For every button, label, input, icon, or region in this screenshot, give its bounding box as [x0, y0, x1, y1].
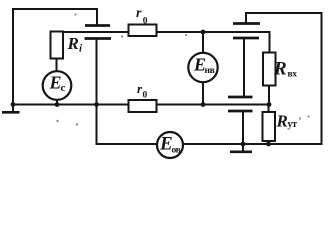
capacitor C2 top plate (signal to shield, receiver side): [233, 22, 260, 25]
resistor r0 (lower line resistance): [129, 100, 157, 112]
svg-text:ут: ут: [288, 119, 298, 130]
wire: top shield horizontal (receiver side): [245, 12, 322, 14]
voltage source Eнв (normal-mode noise emf): [188, 53, 217, 82]
svg-text:нв: нв: [205, 66, 215, 76]
resistor r0 (upper line resistance): [129, 25, 157, 37]
wire: Rвх to lower conductor lead: [268, 86, 270, 105]
resistor Ri (internal resistance of source): [51, 32, 64, 59]
ground (receiver side): drop: [242, 144, 244, 151]
svg-text:ов: ов: [172, 146, 181, 156]
capacitor C1 top plate (source-side cable capacitance): [85, 24, 110, 27]
node: Rвх/Rут junction on lower conductor: [267, 102, 272, 107]
node: C1 stub crossing lower conductor: [94, 102, 99, 107]
svg-text:R: R: [67, 34, 79, 53]
speck: [74, 13, 76, 15]
ground (source side): bar: [2, 111, 20, 114]
svg-text:R: R: [273, 59, 287, 80]
wire: C3 bottom plate down to earth rail: [242, 111, 244, 144]
wire: C1 bottom plate down to common rail: [96, 39, 98, 145]
speck: [185, 34, 187, 36]
wire: shield stub down to capacitor C1: [96, 8, 98, 25]
wire: shield link C2 to C3: [243, 38, 245, 97]
speck: [56, 120, 58, 122]
capacitor C1 bottom plate: [85, 37, 112, 40]
svg-text:с: с: [61, 82, 66, 94]
wire: shield stub down to capacitor C2: [245, 13, 247, 24]
svg-text:0: 0: [143, 16, 148, 26]
speck: [299, 117, 301, 119]
wire: Eнв top lead: [202, 32, 204, 54]
speck: [121, 35, 123, 37]
wire: earth rail with Eов loop: [97, 143, 322, 145]
svg-text:0: 0: [143, 91, 148, 101]
wire: signal conductor down to Rвх: [269, 31, 271, 54]
node: Ec bottom junction: [55, 102, 60, 107]
speck: [307, 115, 309, 117]
wire: left shield vertical: [12, 8, 14, 105]
node: receiver ground junction on earth rail: [241, 142, 246, 147]
wire: Eнв bottom lead: [202, 82, 204, 105]
ground (receiver side): bar: [230, 151, 252, 154]
wire: top shield horizontal (source side): [12, 8, 98, 10]
capacitor C3 bottom plate: [228, 110, 253, 113]
svg-text:r: r: [136, 6, 142, 21]
ground (source side): drop: [12, 105, 14, 112]
wire: right earth vertical: [321, 12, 323, 145]
wire: lower signal conductor: [13, 104, 269, 106]
speck: [76, 123, 78, 125]
wire: Rут bottom lead: [268, 141, 270, 144]
capacitor C2 bottom plate: [233, 37, 259, 40]
resistor Rут (leakage resistance): [263, 112, 276, 141]
svg-text:вх: вх: [288, 70, 298, 80]
svg-text:R: R: [276, 112, 288, 131]
voltage source Eов (common-mode noise emf): [157, 132, 183, 158]
wire: upper signal conductor: [56, 31, 270, 33]
voltage source Ec: [43, 71, 72, 100]
wire: Ri to Ec lead: [56, 59, 58, 73]
wire: Ec to lower conductor lead: [56, 100, 58, 105]
node: left ground junction: [11, 102, 16, 107]
capacitor C3 top plate (lower conductor to shield): [228, 96, 253, 99]
wire: Rут top lead: [268, 105, 270, 113]
node: Eнв bottom junction: [201, 102, 206, 107]
node: Rут bottom junction on earth rail: [266, 142, 271, 147]
resistor Rвх (input resistance): [263, 53, 276, 86]
node: Eнв top junction: [201, 30, 206, 35]
